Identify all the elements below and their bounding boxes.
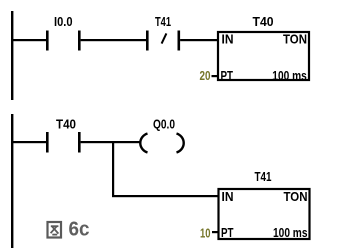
svg-text:IN: IN xyxy=(222,32,234,47)
label T41 xyxy=(155,14,171,29)
timer U: TON T40 box xyxy=(218,32,309,80)
left power rail (rung 1) xyxy=(11,11,13,100)
value 100 ms (T41) xyxy=(273,225,308,240)
svg-text:6c: 6c xyxy=(69,218,90,241)
label T40 contact xyxy=(56,116,76,131)
svg-text:Q0.0: Q0.0 xyxy=(153,116,175,131)
contact T40 (normally open) xyxy=(46,132,81,153)
junction branch vertical wire xyxy=(112,141,114,197)
pin TON (T41) xyxy=(284,189,308,204)
pin TON (T40) xyxy=(283,32,307,47)
left power rail (rung 2) xyxy=(11,114,13,248)
wire rail to contact I0.0 xyxy=(11,39,46,41)
wire T40 contact to coil Q0.0 xyxy=(81,141,142,143)
branch wire to timer T41 xyxy=(112,195,218,197)
caption text 6c xyxy=(69,218,90,241)
PT input stub (T41) xyxy=(212,231,219,233)
label T40 xyxy=(253,14,274,29)
svg-text:PT: PT xyxy=(221,68,234,83)
pin PT (T41) xyxy=(221,225,234,240)
timer U: TON T41 box xyxy=(219,189,310,239)
label T41 box xyxy=(255,169,272,184)
svg-text:TON: TON xyxy=(283,32,307,47)
svg-text:PT: PT xyxy=(221,225,234,240)
svg-text:T41: T41 xyxy=(155,14,171,29)
wire T41 contact to timer box T40 xyxy=(180,39,218,41)
value 100 ms (T40) xyxy=(272,68,307,83)
svg-text:IN: IN xyxy=(222,189,234,204)
coil Q0.0 xyxy=(140,134,183,153)
value 20 preset xyxy=(200,68,211,83)
svg-text:100 ms: 100 ms xyxy=(272,68,307,83)
pin IN (T40) xyxy=(222,32,234,47)
wire rail to contact T40 xyxy=(11,141,46,143)
PT input stub (T40) xyxy=(212,75,219,77)
contact I0.0 (normally open) xyxy=(46,31,81,51)
svg-text:20: 20 xyxy=(200,68,211,83)
svg-text:T41: T41 xyxy=(255,169,272,184)
svg-text:T40: T40 xyxy=(56,116,76,131)
value 10 preset xyxy=(200,226,211,241)
svg-text:100 ms: 100 ms xyxy=(273,225,308,240)
pin PT (T40) xyxy=(221,68,234,83)
svg-text:T40: T40 xyxy=(253,14,274,29)
svg-text:I0.0: I0.0 xyxy=(54,14,73,29)
contact T41 (normally closed) xyxy=(146,31,180,51)
svg-text:TON: TON xyxy=(284,189,308,204)
pin IN (T41) xyxy=(222,189,234,204)
svg-text:10: 10 xyxy=(200,226,211,241)
wire I0.0 to T41 contact xyxy=(81,39,146,41)
caption figure 6c: hanzi TU (drawn) xyxy=(48,222,62,238)
label Q0.0 xyxy=(153,116,175,131)
label I0.0 xyxy=(54,14,73,29)
